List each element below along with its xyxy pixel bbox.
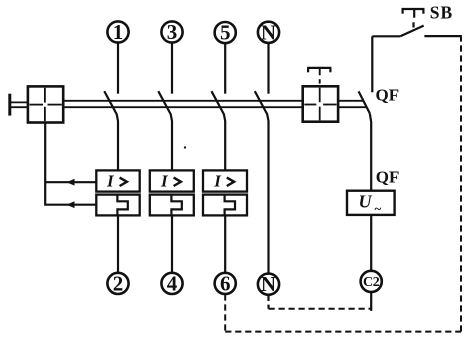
svg-text:C2: C2 <box>363 275 380 290</box>
svg-text:6: 6 <box>220 271 231 295</box>
svg-text:N: N <box>261 272 276 296</box>
svg-text:5: 5 <box>220 21 231 45</box>
svg-text:1: 1 <box>113 20 124 44</box>
svg-text:3: 3 <box>167 20 178 44</box>
svg-text:QF: QF <box>376 168 400 187</box>
svg-text:2: 2 <box>113 271 124 295</box>
svg-text:U: U <box>359 192 373 212</box>
svg-text:~: ~ <box>375 201 382 216</box>
svg-text:SB: SB <box>430 3 453 23</box>
svg-text:N: N <box>261 20 276 44</box>
svg-text:4: 4 <box>167 271 178 295</box>
svg-text:QF: QF <box>376 85 400 104</box>
